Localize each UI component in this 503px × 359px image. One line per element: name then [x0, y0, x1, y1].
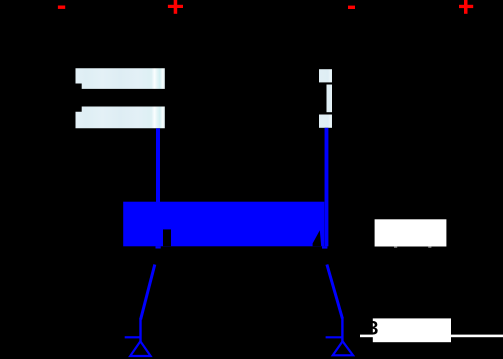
leg: right vertical to anchor — [341, 318, 343, 342]
notch: black slot in beam, left — [163, 229, 171, 246]
leg: left flexure diagonal — [141, 265, 155, 320]
ticks: faint marks below upper box — [394, 247, 397, 249]
right electrode: bottom pad — [319, 115, 332, 128]
stub: blue tab below beam right — [322, 246, 327, 248]
tick: right anchor horizontal — [326, 336, 343, 338]
wire: left vertical (plate to beam) — [156, 128, 160, 202]
tick: left anchor horizontal — [125, 336, 141, 338]
anchor: right pin-joint triangle — [333, 341, 353, 355]
digit 3 (clipped by box edge) — [368, 321, 377, 334]
leg: left vertical to anchor — [139, 319, 141, 342]
notch: black wedge in beam, right — [313, 230, 322, 246]
terminal label + (right electrode positive) — [459, 0, 473, 14]
right electrode: middle bar — [327, 85, 333, 113]
label box: lower white — [373, 318, 451, 342]
terminal label - (right electrode negative) — [348, 6, 355, 9]
beam (blue proof mass bar) — [123, 202, 324, 247]
right electrode: top pad — [319, 69, 332, 82]
baseline: white horizontal line — [360, 335, 503, 338]
wire: right vertical (pad down past beam) — [325, 128, 329, 247]
left electrode: bottom plate (stepped) — [76, 107, 165, 129]
terminal label - (left electrode negative) — [58, 6, 65, 9]
terminal label + (left electrode positive) — [168, 0, 183, 14]
left electrode: top plate (stepped) — [76, 68, 165, 89]
stub: blue tab below beam left — [156, 246, 161, 248]
anchor: left pin-joint triangle — [130, 341, 150, 356]
leg: right flexure diagonal — [327, 265, 343, 319]
label box: upper white — [375, 219, 447, 246]
